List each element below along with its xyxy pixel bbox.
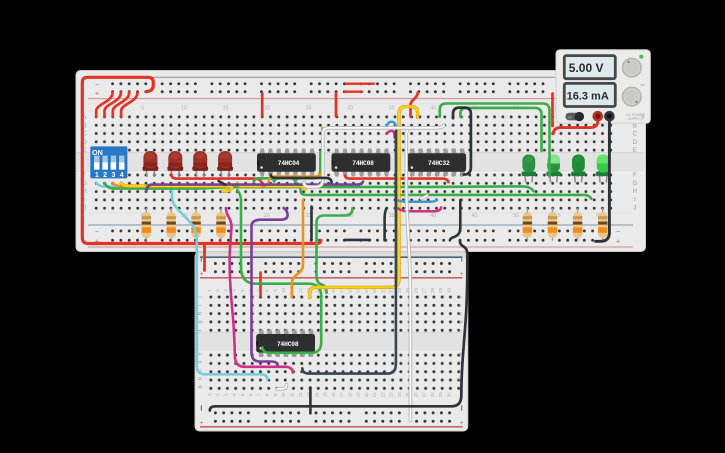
wire red rail to B55 [551, 94, 554, 127]
svg-text:j: j [198, 296, 204, 298]
wire black stub G16 [219, 181, 226, 185]
wire magenta C36 to D37 [387, 131, 395, 138]
resistor R8 [598, 208, 607, 241]
wire yellow G18 bus [237, 183, 305, 189]
wire red jumper rail to A1 [96, 93, 112, 117]
svg-text:10: 10 [181, 105, 187, 111]
svg-text:29: 29 [438, 288, 443, 293]
svg-text:J: J [633, 206, 636, 212]
svg-text:21: 21 [372, 392, 377, 397]
svg-text:−: − [95, 229, 99, 236]
svg-text:10: 10 [281, 392, 286, 397]
svg-text:−: − [95, 82, 99, 89]
svg-text:20: 20 [264, 213, 270, 219]
svg-text:35: 35 [389, 213, 395, 219]
resistor R6 [548, 208, 557, 241]
wire red jumper VCC U3 [411, 93, 418, 117]
wire black row F bus [271, 175, 332, 183]
svg-text:i: i [198, 305, 204, 306]
svg-text:j: j [458, 296, 464, 298]
svg-text:30: 30 [446, 392, 451, 397]
wire white plus rail link [406, 128, 432, 421]
svg-text:74HC04: 74HC04 [278, 160, 300, 167]
wire red rail bridge minus [346, 82, 374, 84]
svg-text:5: 5 [141, 105, 144, 111]
resistor R4 [216, 208, 225, 241]
svg-text:29: 29 [438, 392, 443, 397]
svg-text:h: h [198, 312, 204, 315]
svg-text:e: e [198, 352, 204, 355]
wire cyan DIP1 to b8 [97, 183, 268, 379]
terminal positive [593, 111, 604, 122]
svg-text:5.00 V: 5.00 V [569, 61, 604, 75]
wire orange DIP3 lane [113, 183, 263, 186]
svg-text:i: i [458, 305, 464, 306]
LED red D3 [192, 151, 208, 177]
LED green D8 [596, 155, 611, 183]
wire orange rise to B28 [262, 128, 322, 186]
svg-text:G: G [632, 181, 637, 187]
wire green weave row G [254, 152, 321, 182]
wire red rail bridge plus [345, 90, 362, 92]
svg-text:24: 24 [397, 288, 402, 293]
svg-text:20: 20 [264, 105, 270, 111]
svg-text:b: b [198, 377, 204, 380]
LED red D4 [217, 151, 233, 177]
svg-text:SUPPLY: SUPPLY [628, 117, 642, 121]
wire blue H37 to I42 [398, 199, 436, 202]
wire green long G2 bus [105, 183, 534, 191]
power supply PS1 [556, 50, 650, 124]
wire black PSU lead to minus rail [596, 119, 610, 241]
LED red D1 [143, 151, 159, 177]
wire black I45 to plus rail [450, 200, 460, 240]
svg-text:30: 30 [347, 105, 353, 111]
svg-text:1: 1 [95, 172, 99, 179]
svg-text:E: E [633, 148, 637, 154]
terminal negative [604, 111, 615, 122]
svg-text:74HC32: 74HC32 [428, 160, 450, 167]
svg-text:+: + [616, 239, 620, 246]
svg-text:19: 19 [356, 392, 361, 397]
wire green U3 out to LED bus B [460, 108, 541, 151]
resistor R1 [142, 208, 151, 241]
resistor R3 [191, 208, 200, 241]
svg-text:4: 4 [120, 172, 124, 179]
svg-text:14: 14 [314, 392, 319, 397]
resistor R5 [523, 208, 532, 241]
svg-text:15: 15 [323, 392, 328, 397]
svg-text:+: + [460, 271, 464, 278]
svg-text:22: 22 [380, 392, 385, 397]
LED red D2 [167, 151, 183, 177]
svg-text:28: 28 [430, 392, 435, 397]
svg-text:27: 27 [422, 288, 427, 293]
resistor R2 [167, 208, 176, 241]
svg-text:12: 12 [298, 288, 303, 293]
svg-text:18: 18 [347, 392, 352, 397]
wire black J27 gnd [310, 207, 313, 241]
svg-text:d: d [198, 361, 204, 364]
wire red jumper rail to A4 [121, 93, 137, 117]
IC U1 74HC04 [257, 149, 316, 177]
svg-text:20: 20 [364, 392, 369, 397]
wire purple J23 to d9 [252, 208, 288, 366]
svg-text:45: 45 [472, 213, 478, 219]
wire navy between ICs to c12 [302, 131, 396, 374]
svg-text:23: 23 [389, 392, 394, 397]
svg-text:35: 35 [389, 105, 395, 111]
svg-text:17: 17 [339, 392, 344, 397]
IC U3 74HC32 [407, 149, 466, 177]
svg-text:+: + [200, 271, 204, 278]
wire yellow DIP4 to H16 [121, 183, 232, 191]
LED green D7 [571, 155, 586, 183]
svg-text:25: 25 [306, 105, 312, 111]
svg-text:16: 16 [331, 392, 336, 397]
wire red plus rail to j7 [259, 273, 262, 296]
svg-text:40: 40 [430, 213, 436, 219]
svg-text:+: + [95, 90, 99, 97]
svg-text:26: 26 [413, 288, 418, 293]
svg-text:C: C [633, 132, 638, 138]
svg-text:40: 40 [430, 105, 436, 111]
wire white G26 to B42 [304, 125, 444, 187]
svg-text:g: g [198, 320, 204, 323]
wire black rail bridge [345, 239, 371, 242]
LED green D5 [522, 155, 537, 183]
svg-text:12: 12 [298, 392, 303, 397]
svg-text:3: 3 [111, 172, 115, 179]
svg-text:27: 27 [422, 392, 427, 397]
svg-text:on: on [568, 115, 572, 119]
wire black arc A44 to F45 [453, 108, 471, 175]
svg-text:+: + [460, 420, 464, 427]
svg-text:F: F [633, 173, 637, 179]
svg-text:B: B [633, 123, 637, 129]
svg-text:24: 24 [397, 392, 402, 397]
wire green big to U4 [237, 190, 321, 353]
wire white stub I40 [421, 196, 427, 199]
IC U4 74HC08 [256, 330, 315, 358]
wire red power loop [82, 77, 320, 243]
IC U2 74HC08 [332, 149, 391, 177]
wire red jumper VCC U2 [335, 94, 338, 117]
svg-text:74HC08: 74HC08 [352, 160, 374, 167]
breadboard BB1 [76, 71, 646, 252]
svg-text:D: D [633, 140, 638, 146]
wire red PSU lead to C55 [553, 119, 598, 134]
wire magenta J17 to c11 [226, 208, 293, 373]
wire green J32 to j15 [317, 208, 353, 293]
wire green long lower bus [297, 183, 591, 198]
svg-text:74HC08: 74HC08 [277, 341, 299, 348]
wire black J36 gnd [385, 208, 387, 240]
wire red board link [203, 244, 206, 271]
svg-text:2: 2 [103, 172, 107, 179]
breadboard BB2 [195, 252, 468, 431]
svg-text:H: H [633, 189, 637, 195]
wire red jumper rail to A3 [113, 93, 129, 117]
wire white small jumper a10 [277, 385, 286, 389]
wire black rail to bottom rail [210, 241, 468, 411]
LED green D6 [546, 155, 561, 183]
wire yellow j13 to U3 [310, 107, 418, 298]
wire black a13 to rail [309, 387, 312, 413]
svg-text:10: 10 [281, 288, 286, 293]
wire red jumper VCC U1 [261, 94, 264, 117]
svg-text:−: − [616, 229, 620, 236]
wire blue B36 to C37 [387, 122, 397, 132]
svg-text:26: 26 [413, 392, 418, 397]
svg-text:h: h [458, 312, 464, 315]
wire orange I26 to j11 [292, 200, 303, 297]
svg-text:16.3 mA: 16.3 mA [567, 90, 609, 102]
DIP switch S1 [90, 146, 127, 178]
wire red jumper rail to A2 [105, 93, 121, 117]
wire red bus right [345, 176, 448, 183]
svg-text:15: 15 [223, 105, 229, 111]
wire green U3 out to LED bus A [440, 104, 550, 177]
wire red bus row F [171, 175, 261, 183]
svg-text:g: g [458, 320, 464, 323]
svg-text:28: 28 [430, 288, 435, 293]
svg-text:30: 30 [446, 288, 451, 293]
svg-text:+: + [200, 420, 204, 427]
wire purple long bus [146, 182, 363, 192]
resistor R7 [573, 208, 582, 241]
wire magenta J37 to J42 [398, 207, 441, 211]
svg-text:11: 11 [290, 392, 295, 397]
svg-text:50: 50 [513, 213, 519, 219]
